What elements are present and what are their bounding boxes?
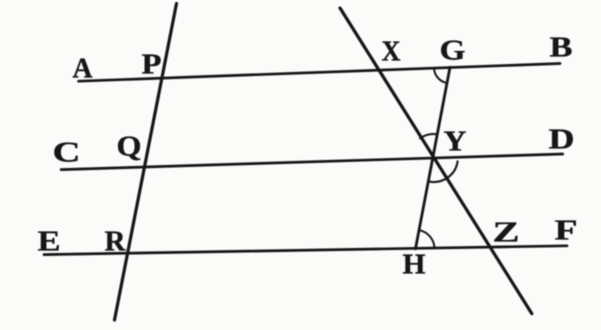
svg-text:C: C bbox=[53, 137, 81, 169]
svg-text:E: E bbox=[38, 226, 61, 258]
line AB bbox=[79, 64, 560, 82]
svg-text:G: G bbox=[440, 35, 466, 67]
svg-text:Q: Q bbox=[117, 131, 142, 163]
angle arc below Y bbox=[430, 161, 458, 182]
angle arc at H bbox=[420, 230, 435, 248]
svg-text:X: X bbox=[382, 36, 401, 68]
svg-text:P: P bbox=[142, 49, 162, 81]
line CD bbox=[61, 154, 563, 170]
svg-text:B: B bbox=[550, 32, 573, 64]
svg-text:D: D bbox=[549, 124, 575, 156]
transversal PQR bbox=[115, 4, 177, 321]
svg-text:A: A bbox=[73, 53, 93, 85]
segment GYH bbox=[416, 67, 451, 249]
angle arc XYG above Y bbox=[420, 134, 437, 138]
svg-text:Z: Z bbox=[493, 217, 520, 249]
svg-text:F: F bbox=[555, 215, 578, 247]
svg-text:Y: Y bbox=[444, 126, 467, 158]
transversal XYZ bbox=[340, 8, 532, 314]
angle arc at G bbox=[434, 68, 447, 83]
line EF bbox=[44, 246, 567, 255]
svg-text:H: H bbox=[403, 249, 426, 281]
svg-text:R: R bbox=[105, 226, 127, 258]
